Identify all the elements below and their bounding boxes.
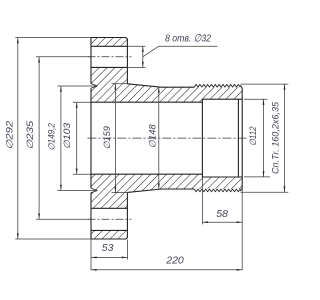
lower groove edges xyxy=(91,188,98,193)
bore dia103 lines xyxy=(91,102,202,174)
thread crest lower xyxy=(194,189,240,192)
upper groove edges xyxy=(91,84,98,89)
thread end chamfer upper xyxy=(240,85,242,88)
dia149.2 arrows xyxy=(60,86,62,190)
thread crest upper xyxy=(194,84,240,87)
svg-text:∅159: ∅159 xyxy=(102,126,112,150)
lower hub taper xyxy=(127,189,194,192)
upper bolt hole opening xyxy=(91,46,128,67)
lower face groove wedge xyxy=(90,188,97,193)
upper bolt hole lines xyxy=(91,46,127,67)
flange top edge xyxy=(91,38,127,40)
dia159 arrows xyxy=(114,84,116,193)
dia32 arrows xyxy=(142,46,144,67)
lower bolt hole lines xyxy=(91,208,127,230)
dia159 extension lines xyxy=(112,84,128,193)
end face xyxy=(241,88,243,188)
dim53 dimension line xyxy=(91,256,127,258)
flange left face xyxy=(90,38,92,240)
thread extension lines xyxy=(241,84,289,192)
dia32 dimension line xyxy=(142,46,144,67)
svg-text:58: 58 xyxy=(216,208,228,220)
dia32 extension lines xyxy=(127,46,145,67)
dia148 dimension line xyxy=(158,87,160,189)
main centerline xyxy=(87,137,246,139)
dia149.2 dimension line xyxy=(60,86,62,190)
svg-text:∅235: ∅235 xyxy=(25,120,35,150)
dim220 arrows xyxy=(91,269,242,271)
svg-text:∅103: ∅103 xyxy=(62,123,72,149)
dia112 arrows xyxy=(263,99,265,177)
flange right face upper xyxy=(126,39,128,84)
dia149.2 extension lines xyxy=(57,86,97,190)
svg-text:8 отв. ∅32: 8 отв. ∅32 xyxy=(165,32,211,44)
svg-text:Сп.Тr. 160,2х6,35: Сп.Тr. 160,2х6,35 xyxy=(271,101,281,174)
dia103 arrows xyxy=(76,102,78,174)
dia148 arrows xyxy=(158,87,160,189)
svg-text:∅112: ∅112 xyxy=(248,126,258,146)
svg-text:220: 220 xyxy=(165,255,184,267)
dia103 dimension line xyxy=(76,102,78,174)
dim58 arrows xyxy=(202,221,242,223)
dia159 dimension line xyxy=(114,84,116,192)
thread end chamfer lower xyxy=(240,188,242,191)
dia103 extension lines xyxy=(73,102,91,174)
svg-text:53: 53 xyxy=(102,242,114,254)
svg-text:∅149,2: ∅149,2 xyxy=(46,123,56,151)
dim53 extension lines xyxy=(91,240,127,271)
thread dimension line xyxy=(284,84,286,192)
dia235 dimension line xyxy=(38,57,40,219)
dim220 dimension line xyxy=(91,269,242,271)
dia292 extension lines xyxy=(15,38,91,240)
dia292 dimension line xyxy=(17,38,19,239)
dia112 dimension line xyxy=(263,99,265,176)
upper hub taper xyxy=(127,84,194,87)
flange bottom edge xyxy=(91,237,127,239)
upper body section hatch xyxy=(91,38,242,103)
lower bolt hole centerline xyxy=(88,218,132,220)
dim58 extension lines xyxy=(202,177,242,270)
dia32 leader xyxy=(143,46,218,57)
svg-text:∅292: ∅292 xyxy=(4,121,14,150)
dia235 arrows xyxy=(38,57,40,219)
dim53 arrows xyxy=(91,256,127,258)
bore dia112 lines xyxy=(202,99,242,177)
dia112 extension lines xyxy=(244,99,270,177)
flange right face lower xyxy=(126,192,128,238)
dia235 extension lines xyxy=(36,57,91,219)
dim58 dimension line xyxy=(202,221,242,223)
lower bolt hole opening xyxy=(91,208,128,230)
svg-text:∅148: ∅148 xyxy=(147,124,157,148)
bore end chamfer line xyxy=(237,99,239,177)
dia292 arrows xyxy=(17,38,19,240)
lower body section hatch xyxy=(91,174,242,239)
thread arrows xyxy=(284,84,286,192)
bore step face xyxy=(201,99,203,177)
upper face groove wedge xyxy=(90,83,97,88)
upper bolt hole centerline xyxy=(88,56,132,58)
